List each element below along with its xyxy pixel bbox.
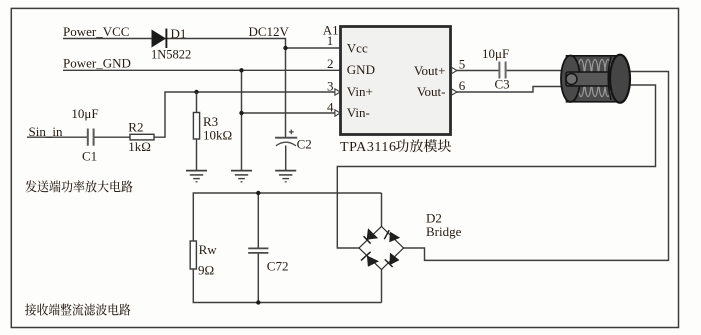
svg-text:Vcc: Vcc — [347, 40, 368, 55]
svg-text:Bridge: Bridge — [426, 224, 462, 239]
svg-text:Sin_in: Sin_in — [29, 124, 63, 139]
svg-text:6: 6 — [459, 78, 466, 93]
svg-text:1N5822: 1N5822 — [151, 48, 191, 62]
svg-text:DC12V: DC12V — [249, 24, 290, 39]
svg-text:TPA3116: TPA3116 — [340, 140, 397, 155]
svg-text:Vin+: Vin+ — [347, 84, 373, 99]
capacitor C1 plates — [88, 129, 94, 146]
wire C2 bottom lead to ground — [285, 146, 287, 171]
svg-text:Vout+: Vout+ — [414, 63, 446, 78]
wire C3 to transducer — [506, 70, 562, 72]
ground (GND net) — [231, 171, 252, 182]
wire transducer right-bottom to bridge left — [337, 85, 655, 248]
wire bridge top lead — [381, 193, 383, 227]
wire C1 to R2 — [94, 136, 131, 138]
wire Rw bottom / loop bottom — [193, 269, 381, 303]
diode D2b top-right — [384, 230, 400, 242]
svg-text:10μF: 10μF — [71, 106, 98, 121]
capacitor C3 plates — [499, 62, 505, 79]
svg-text:R2: R2 — [128, 119, 143, 134]
resistor Rw body — [190, 241, 196, 269]
svg-text:C72: C72 — [267, 258, 289, 273]
wire loop top / Rw top — [193, 193, 381, 241]
pin4 arrow — [335, 110, 340, 116]
diode D1 — [152, 29, 167, 49]
wire R3 top lead — [196, 92, 198, 113]
capacitor C72 plates — [248, 248, 268, 253]
svg-text:Power_VCC: Power_VCC — [63, 24, 129, 39]
junction pin4/GND vertical — [239, 111, 243, 115]
ground (C2) — [275, 171, 296, 182]
junction R3 top — [194, 90, 198, 94]
wire R3 bottom lead to ground — [196, 139, 198, 171]
wire transducer right-top to bridge right — [404, 72, 669, 261]
svg-text:Rw: Rw — [199, 242, 218, 257]
svg-text:Vout-: Vout- — [417, 84, 446, 99]
wire pin5 Vout+ to C3 — [451, 70, 500, 72]
svg-text:2: 2 — [327, 56, 334, 71]
svg-text:1kΩ: 1kΩ — [128, 139, 151, 154]
resistor R2 body — [130, 134, 154, 140]
svg-text:4: 4 — [327, 99, 334, 114]
diode D2c bottom-left — [361, 252, 379, 267]
wire R2 up to pin3 Vin+ — [154, 92, 336, 137]
wire Power_VCC to DC12V node down to C2 — [63, 39, 286, 138]
junction C72 top — [256, 191, 260, 195]
caption 发送端功率放大电路 — [25, 180, 132, 192]
wire pin6 Vout- to transducer — [451, 87, 564, 93]
svg-text:C1: C1 — [82, 149, 97, 164]
wire Power_GND to pin2 — [63, 69, 341, 71]
module name CJK 功放模块 — [396, 139, 451, 152]
bridge rectifier D2 — [359, 227, 404, 270]
svg-text:GND: GND — [347, 62, 375, 77]
junction GND net — [239, 68, 243, 72]
diode D2a top-left — [364, 228, 379, 243]
svg-text:D1: D1 — [171, 26, 187, 41]
wire C72 bottom lead — [257, 253, 259, 303]
wire bridge bottom lead — [381, 270, 383, 303]
wire Sin_in to C1 — [27, 136, 87, 138]
wire pin1 Vcc stub — [286, 47, 341, 49]
transducer (coupled cylinder) — [561, 55, 630, 103]
wire C72 top lead — [257, 193, 259, 248]
ground (R3) — [186, 171, 207, 182]
pin6 arrow — [452, 89, 457, 95]
svg-text:Vin-: Vin- — [347, 105, 370, 120]
wire pin4 Vin- stub — [242, 112, 336, 114]
caption 接收端整流滤波电路 — [25, 303, 130, 315]
op-amp module U1 TPA3116 block — [341, 27, 451, 135]
pin5 arrow — [452, 67, 457, 73]
svg-text:1: 1 — [327, 33, 334, 48]
svg-text:10kΩ: 10kΩ — [203, 127, 232, 142]
junction C72 bottom — [256, 300, 260, 304]
pin3 arrow — [335, 89, 340, 95]
svg-text:3: 3 — [327, 79, 334, 94]
junction DC12V/pin1 — [283, 46, 287, 50]
wire GND vertical to ground — [241, 70, 243, 170]
svg-text:9Ω: 9Ω — [198, 263, 214, 278]
resistor R3 body — [193, 113, 199, 140]
capacitor C2 (polarized) — [275, 130, 297, 146]
svg-text:5: 5 — [459, 57, 466, 72]
svg-text:C2: C2 — [297, 136, 312, 151]
svg-text:10μF: 10μF — [482, 46, 509, 61]
svg-text:C3: C3 — [495, 76, 510, 91]
svg-text:Power_GND: Power_GND — [63, 56, 131, 71]
diode D2d bottom-right — [385, 253, 400, 267]
